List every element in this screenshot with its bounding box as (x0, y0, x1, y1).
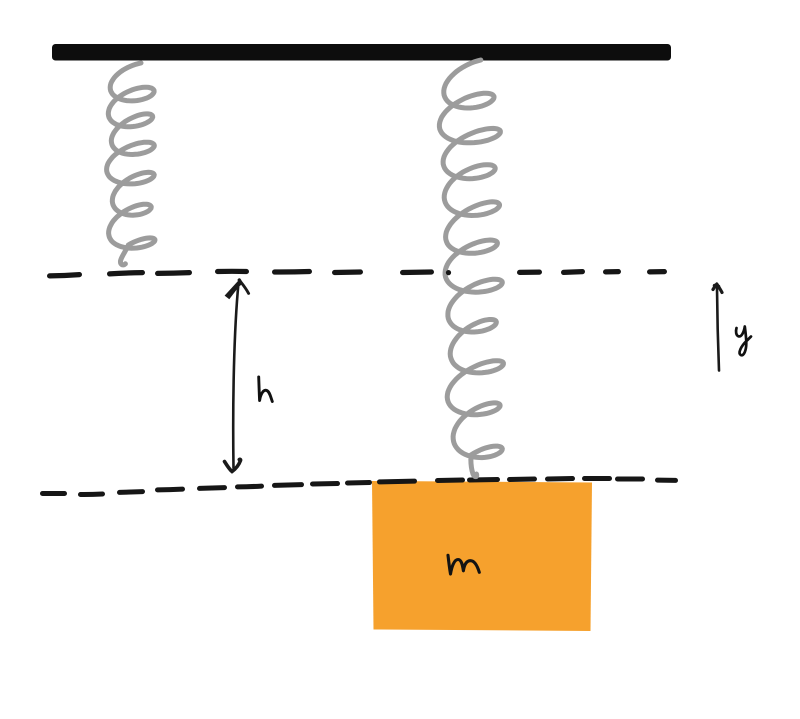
label h (distance) (259, 377, 273, 402)
ceiling bar (52, 44, 671, 61)
spring 2: right stretched coil holding mass (439, 60, 503, 477)
dash dot on upper dashed line (446, 270, 451, 275)
mass block m (orange) (372, 481, 592, 631)
dimension arrow h: bottom arrowhead (225, 459, 241, 471)
spring 1: left unstretched coil (107, 63, 155, 265)
dimension arrow h: top arrowhead (237, 280, 241, 284)
dimension arrow h: shaft (233, 283, 238, 468)
dashed reference line: stretched equilibrium level (43, 479, 676, 495)
axis arrow y: shaft (717, 288, 719, 371)
label m (mass) (448, 555, 479, 574)
dashed reference line: natural spring length level (50, 271, 665, 276)
axis arrow y: arrowhead (713, 284, 722, 293)
label y (coordinate) (736, 327, 751, 356)
